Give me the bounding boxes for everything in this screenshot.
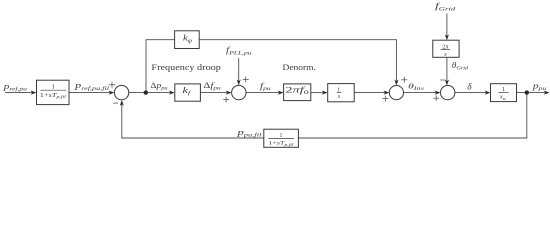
svg-text:1: 1 — [52, 84, 55, 91]
svg-text:1: 1 — [280, 133, 283, 139]
svg-text:Frequency droop: Frequency droop — [151, 63, 221, 72]
svg-text:1: 1 — [502, 86, 505, 93]
svg-text:Denorm.: Denorm. — [283, 63, 316, 72]
